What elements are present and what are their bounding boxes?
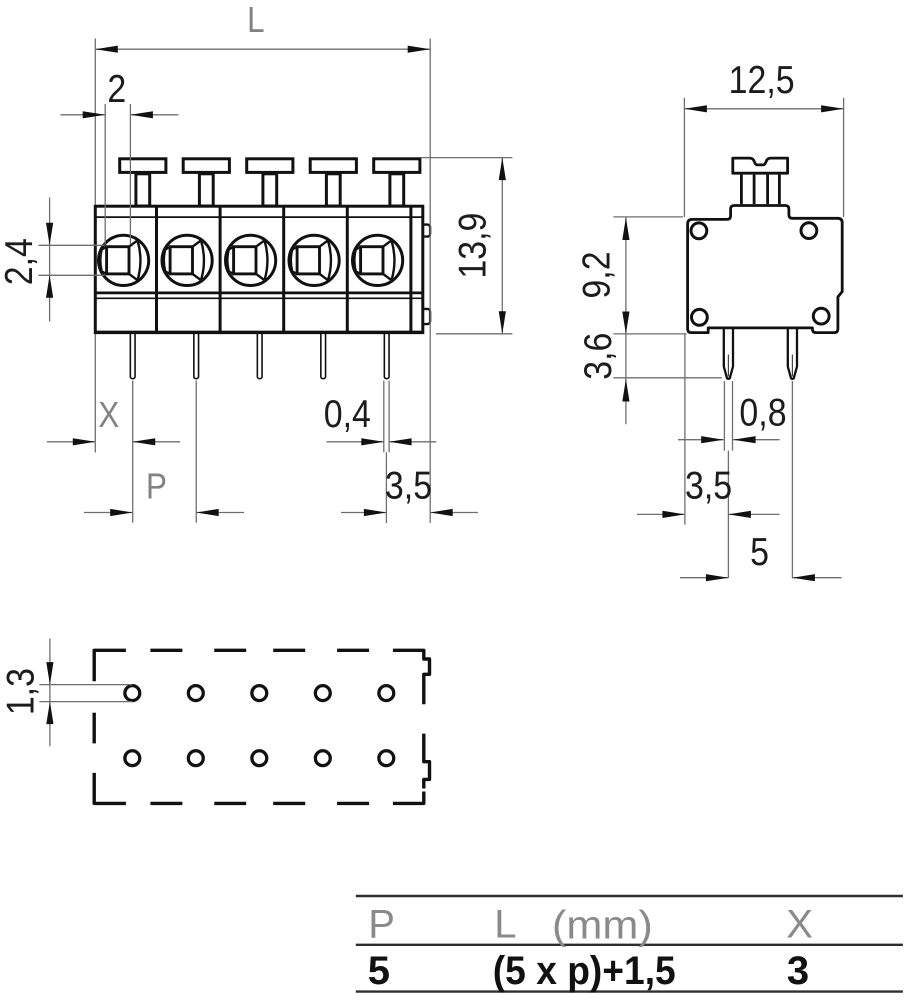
dimension 9,2 / 3,6 shared line: [625, 217, 627, 424]
svg-text:3,5: 3,5: [385, 463, 432, 507]
clamp 1 socket square: [107, 247, 129, 274]
svg-text:P: P: [146, 467, 167, 508]
svg-text:3: 3: [787, 949, 809, 993]
clamp 3 screw circle: [226, 235, 276, 285]
front view: right edge bump tab upper: [424, 225, 430, 237]
pcb layout: dashed outline bottom-left corner: [94, 773, 126, 804]
dimension 13,9 extension lines: [422, 157, 513, 159]
solder pin 4 (front view): [321, 334, 326, 379]
side view: mounting hole top-right: [801, 223, 817, 239]
front view: section divider 5: [409, 206, 412, 332]
side view: mounting hole top-left: [691, 223, 707, 239]
dimension 0,8 line: [678, 439, 724, 441]
dimension 2,4 extension lines: [39, 244, 105, 246]
svg-text:L: L: [494, 903, 516, 947]
solder pin 5 (front view): [384, 334, 389, 379]
dimension 0,8/3,5/5 extension: pin A centre: [727, 451, 729, 578]
dimension P extension: pin 2 centre: [195, 381, 197, 523]
clamp 4 screw circle: [289, 235, 339, 285]
clamp 5 socket square: [361, 247, 383, 274]
dimension 3,5 line (side): [637, 513, 685, 515]
screw 3 head (front view): [247, 159, 293, 173]
side view: solder pin B: [788, 329, 797, 379]
svg-text:0,8: 0,8: [739, 390, 786, 434]
svg-text:X: X: [98, 395, 119, 436]
dimension 5 extension: pin B centre: [791, 381, 793, 578]
table: bottom rule: [356, 990, 903, 992]
pcb layout: dashed outline bottom dashes: [150, 802, 182, 805]
clamp 5 screw circle: [353, 235, 403, 285]
pcb layout: drill hole row 1 col 2: [188, 686, 203, 701]
pcb layout: drill hole row 1 col 3: [252, 686, 267, 701]
front view: lower double line (thick): [94, 291, 424, 294]
side view: solder pin A: [724, 329, 733, 379]
clamp 5 socket chamfer edges: [383, 240, 394, 280]
screw 2 stem (front view): [199, 174, 213, 206]
dimension 12,5 extension lines: [683, 98, 685, 217]
svg-text:9,2: 9,2: [575, 251, 619, 298]
pcb layout: drill hole row 1 col 5: [379, 686, 394, 701]
clamp 2 socket chamfer edges: [193, 240, 204, 280]
dimension L / body-right extension line: [429, 39, 431, 524]
svg-text:(mm): (mm): [552, 902, 653, 947]
dimension L line: [95, 48, 430, 50]
solder pin 2 (front view): [194, 334, 199, 379]
svg-text:0,4: 0,4: [324, 392, 371, 436]
pcb layout: drill hole row 2 col 2: [188, 751, 203, 766]
svg-text:2,4: 2,4: [0, 238, 41, 285]
clamp 4 socket square: [297, 247, 319, 274]
screw 4 stem (front view): [326, 174, 340, 206]
front view: lower double line (thin): [94, 297, 424, 299]
svg-text:L: L: [247, 0, 264, 40]
svg-text:12,5: 12,5: [729, 58, 795, 102]
svg-text:5: 5: [750, 530, 769, 574]
screw 1 head (front view): [120, 159, 166, 173]
front view: body bottom edge: [94, 331, 424, 334]
clamp 1 socket chamfer edges: [129, 240, 140, 280]
dimension 9,2/3,6 extension line (body bottom): [613, 333, 686, 335]
side view: screw head with wrench notch: [733, 158, 788, 173]
svg-text:5: 5: [368, 949, 390, 993]
pcb layout: drill hole row 1 col 1: [125, 686, 140, 701]
clamp 1 screw circle: [99, 235, 149, 285]
table: top rule: [356, 895, 903, 897]
pcb layout: drill hole row 2 col 3: [252, 751, 267, 766]
pcb layout: drill hole row 2 col 5: [379, 751, 394, 766]
clamp 3 socket square: [234, 247, 256, 274]
dimension 2 line: [61, 114, 106, 116]
screw 5 head (front view): [374, 159, 420, 173]
svg-text:3,6: 3,6: [576, 333, 620, 380]
svg-text:13,9: 13,9: [450, 213, 494, 279]
svg-text:P: P: [368, 903, 395, 947]
screw 5 stem (front view): [390, 174, 404, 206]
dimension 1,3 line: [49, 639, 51, 747]
dimension 13,9 line: [501, 158, 503, 334]
dimension 9,2 extension line (body top): [613, 216, 683, 218]
dimension 2 extension lines: [104, 104, 106, 245]
dimension 3,6 extension line (pin tip): [613, 377, 722, 379]
screw 1 stem (front view): [136, 174, 150, 206]
clamp 3 socket chamfer edges: [256, 240, 267, 280]
screw 3 stem (front view): [263, 174, 277, 206]
dimension 3,5 line (front): [341, 512, 386, 514]
clamp 2 screw circle: [162, 235, 212, 285]
side view: pin B seam line: [791, 355, 793, 377]
pcb layout: dashed outline bottom-right corner: [393, 792, 424, 804]
pcb layout: drill hole row 2 col 4: [315, 751, 330, 766]
front view: section divider 4: [346, 206, 349, 332]
solder pin 1 (front view): [130, 334, 135, 379]
front view: right edge bump tab lower: [424, 309, 430, 324]
dimension X extension: body left edge: [94, 334, 96, 453]
side view: mounting hole bottom-right: [813, 308, 829, 324]
pcb layout: dashed outline top dashes: [150, 649, 182, 652]
dimension 1,3 extension lines (hole tangents): [39, 684, 132, 686]
dimension 0,4 line: [327, 441, 384, 443]
front view: section divider 3: [282, 206, 285, 332]
front view: section divider 2: [219, 206, 222, 332]
pcb layout: dashed outline top-left corner: [94, 650, 126, 681]
screw 4 head (front view): [310, 159, 356, 173]
clamp 2 socket square: [170, 247, 192, 274]
front view: terminal block body outline: [95, 206, 423, 332]
side view: pin A seam line: [727, 355, 729, 377]
screw 2 head (front view): [183, 159, 229, 173]
svg-text:(5 x p)+1,5: (5 x p)+1,5: [493, 949, 676, 994]
dimension 0,4 extension: pin 5 edges: [383, 381, 385, 453]
dimension L extension left: [94, 39, 96, 206]
side view: body outline: [688, 206, 843, 333]
svg-text:2: 2: [107, 67, 126, 111]
dimension 5 line: [680, 577, 728, 579]
dimension 3,5 extension: body left edge: [684, 335, 686, 525]
clamp 4 socket chamfer edges: [320, 240, 331, 280]
dimension 9,2 arrows: [622, 218, 629, 241]
side view: screw shank lines: [740, 175, 743, 205]
dimension 3,6 arrow: [622, 379, 629, 402]
front view: section divider 1: [155, 206, 158, 332]
dimension 2,4 line: [49, 198, 51, 322]
svg-text:X: X: [786, 903, 813, 947]
pcb layout: dashed outline top-right corner with notch: [393, 650, 430, 704]
pcb layout: dashed outline left dash: [92, 713, 95, 744]
dimension X/P extension: pin 1 centre: [132, 381, 134, 523]
table: middle rule: [356, 944, 903, 946]
dimension P line: [84, 512, 133, 514]
dimension X line: [47, 441, 95, 443]
svg-text:3,5: 3,5: [685, 463, 732, 507]
pcb layout: drill hole row 1 col 4: [315, 686, 330, 701]
side view: mounting hole bottom-left: [692, 309, 708, 325]
solder pin 3 (front view): [257, 334, 262, 379]
dimension 0,8 extension: pin A edges: [723, 381, 725, 451]
pcb layout: dashed outline right dash with notch: [424, 734, 430, 789]
dimension 0,4 extension: pin 5 centre: [385, 452, 387, 523]
dimension 12,5 line: [684, 108, 843, 110]
pcb layout: drill hole row 2 col 1: [125, 751, 140, 766]
front view: body top strip line: [95, 216, 423, 218]
svg-text:1,3: 1,3: [0, 668, 42, 715]
